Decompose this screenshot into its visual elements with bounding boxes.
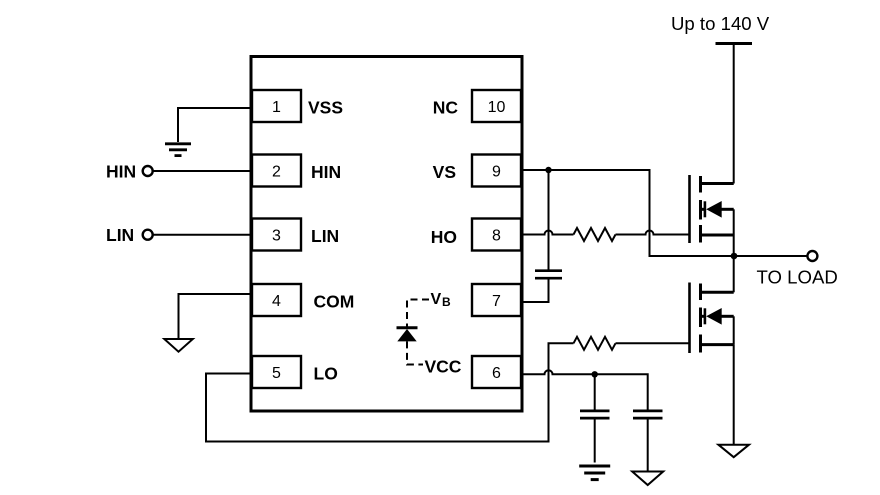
pin 7 box xyxy=(472,284,521,316)
pin 8 box xyxy=(472,219,521,251)
ground (earth) at VSS xyxy=(165,144,191,156)
wire VS pin9 to switch node xyxy=(521,170,808,256)
svg-text:8: 8 xyxy=(492,227,501,244)
svg-text:COM: COM xyxy=(314,292,355,312)
svg-text:V: V xyxy=(431,291,442,308)
D1 cathode bar xyxy=(397,326,418,329)
capacitor C2 xyxy=(580,411,610,418)
Q1 body diode cathode bar xyxy=(704,201,707,217)
D1 arrow (pointing up) xyxy=(397,329,416,341)
transistor Q2 (low-side MOSFET) xyxy=(701,284,734,353)
pin 9 box xyxy=(472,155,521,187)
pin 3 box xyxy=(252,219,301,251)
IC body U1 xyxy=(251,57,522,412)
wire VCC pin6 with hop over LO wire xyxy=(521,370,648,409)
ground (chassis triangle) at COM xyxy=(164,339,193,352)
svg-text:HIN: HIN xyxy=(106,162,136,182)
Q2 gate bar xyxy=(688,283,691,354)
wire HIN to pin 2 xyxy=(153,170,251,172)
svg-text:LO: LO xyxy=(314,363,338,383)
svg-text:B: B xyxy=(442,295,451,309)
terminal LIN xyxy=(143,230,153,240)
internal bootstrap diode D1 (dashed VB link) xyxy=(407,300,429,328)
Q2 drain lead xyxy=(701,291,734,294)
terminal HIN xyxy=(143,166,153,176)
svg-text:VCC: VCC xyxy=(425,357,462,377)
svg-text:6: 6 xyxy=(492,365,501,382)
pin 5 box xyxy=(252,356,301,388)
ground (chassis triangle) at C3 xyxy=(632,472,663,486)
Q1 gate bar xyxy=(688,175,691,243)
svg-text:LIN: LIN xyxy=(106,225,134,245)
capacitor C3 xyxy=(633,411,663,418)
wire Q1 source to node xyxy=(733,209,735,256)
capacitor C1 (bootstrap) xyxy=(535,271,562,279)
pin 1 box xyxy=(252,90,301,122)
wire LO pin5 loop to gate resistor R2 xyxy=(206,343,574,441)
pin 4 box xyxy=(252,284,301,316)
Q1 source lead xyxy=(701,234,734,237)
wire supply to Q1 drain xyxy=(733,44,735,184)
wire LIN to pin 3 xyxy=(153,234,251,236)
wire Q2 source to ground xyxy=(733,345,735,445)
wire VSS pin1 to ground xyxy=(178,108,251,142)
resistor R2 (low-side gate) xyxy=(574,337,616,350)
wire VCC node down to capacitor C2 xyxy=(594,374,596,409)
terminal TO LOAD xyxy=(807,251,817,261)
wire node to Q2 drain xyxy=(733,256,735,292)
Q1 channel dashes xyxy=(699,176,702,193)
svg-text:NC: NC xyxy=(433,97,459,117)
Q2 channel dashes xyxy=(699,284,702,301)
ground (earth) at C2 xyxy=(579,466,610,480)
svg-text:HIN: HIN xyxy=(311,162,341,182)
pin 10 box xyxy=(472,90,521,122)
svg-text:HO: HO xyxy=(431,227,457,247)
supply rail bar Up to 140 V xyxy=(716,42,753,45)
Q2 source lead xyxy=(701,343,734,346)
svg-text:10: 10 xyxy=(488,99,506,116)
wire C1 to pin 7 (VB) xyxy=(521,278,549,302)
wire C3 to ground xyxy=(647,418,649,471)
node TO LOAD dot xyxy=(731,253,738,260)
wire C2 to ground xyxy=(594,418,596,462)
svg-text:1: 1 xyxy=(272,99,281,116)
wire R1 with hop to Q1 gate xyxy=(616,231,690,235)
Q1 drain lead xyxy=(701,182,734,185)
D1 dashed link to VCC xyxy=(407,341,423,364)
svg-text:TO LOAD: TO LOAD xyxy=(757,266,838,287)
svg-text:LIN: LIN xyxy=(311,226,339,246)
wire HO pin8 with hops to resistor R1 xyxy=(521,231,574,235)
Q1 body diode arrow xyxy=(706,201,722,218)
junction dot VS / bootstrap xyxy=(545,167,551,173)
svg-text:4: 4 xyxy=(272,293,281,310)
Q2 body diode line xyxy=(701,315,705,318)
svg-text:5: 5 xyxy=(272,365,281,382)
wire bootstrap: VS down to C1 xyxy=(548,170,550,270)
svg-text:7: 7 xyxy=(492,293,501,310)
ground (chassis triangle) at Q2 source xyxy=(718,445,749,458)
pin 6 box xyxy=(472,356,521,388)
svg-text:9: 9 xyxy=(492,163,501,180)
Q2 body diode arrow xyxy=(706,308,722,325)
svg-text:VS: VS xyxy=(433,162,456,182)
svg-text:Up to 140 V: Up to 140 V xyxy=(671,13,770,34)
junction dot VCC node xyxy=(592,371,598,377)
svg-text:VSS: VSS xyxy=(308,97,343,117)
Q2 body diode cathode bar xyxy=(704,308,707,324)
wire R2 to Q2 gate xyxy=(616,342,690,344)
pin 2 box xyxy=(252,155,301,187)
resistor R1 (high-side gate) xyxy=(574,228,616,241)
svg-text:2: 2 xyxy=(272,163,281,180)
wire COM pin4 to ground xyxy=(179,294,252,339)
transistor Q1 (high-side MOSFET) xyxy=(701,176,734,243)
wire Q2 body diode to source xyxy=(733,316,735,344)
svg-text:3: 3 xyxy=(272,227,281,244)
Q1 body diode line xyxy=(701,208,705,211)
